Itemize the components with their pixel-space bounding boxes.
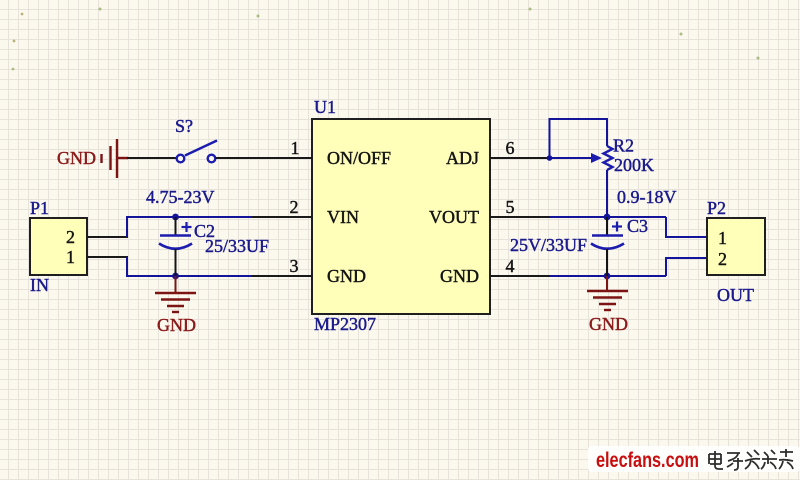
P1 pin 2 stub (87, 236, 128, 238)
svg-text:GND: GND (57, 148, 96, 168)
connector P2 (707, 218, 765, 275)
junction: C2 top (172, 214, 179, 221)
svg-text:C3: C3 (627, 216, 648, 236)
connector P1 (30, 218, 87, 275)
junction: C3 bottom (604, 273, 611, 280)
svg-text:R2: R2 (613, 136, 634, 156)
svg-text:2: 2 (718, 249, 727, 269)
svg-text:200K: 200K (614, 155, 654, 175)
junction: C2 bottom (172, 273, 179, 280)
svg-text:2: 2 (66, 227, 75, 247)
svg-text:1: 1 (291, 138, 300, 158)
IC U1 body (312, 119, 490, 314)
svg-text:P2: P2 (707, 198, 726, 218)
wire: VOUT drop to P2 pin 1 (666, 217, 707, 237)
svg-text:IN: IN (30, 275, 49, 295)
capacitor C2 (159, 217, 192, 276)
svg-text:OUT: OUT (717, 285, 754, 305)
svg-text:GND: GND (157, 315, 196, 335)
capacitor C3 (591, 217, 624, 276)
pin 3 (252, 275, 312, 277)
svg-text:elecfans.com: elecfans.com (596, 449, 699, 472)
wire: loop from junction up over to R2 top (550, 119, 608, 158)
pin 6 (490, 157, 550, 159)
svg-text:GND: GND (589, 314, 628, 334)
svg-text:MP2307: MP2307 (314, 314, 376, 334)
svg-text:S?: S? (175, 116, 193, 136)
watermark band (588, 446, 800, 472)
svg-text:6: 6 (506, 138, 515, 158)
svg-text:5: 5 (506, 197, 515, 217)
svg-text:1: 1 (66, 247, 75, 267)
wire: VOUT rail (550, 216, 666, 218)
wire: GND rail (right) (550, 275, 666, 277)
wire: ADJ to R2 junction (550, 157, 592, 159)
svg-text:VOUT: VOUT (429, 207, 479, 227)
wire: switch to pin 1 (216, 157, 253, 159)
pin 1 (252, 157, 312, 159)
switch S? (177, 141, 217, 163)
power ground bar GND (left) (102, 139, 129, 178)
ground GND (under C3) (587, 276, 628, 310)
svg-text:P1: P1 (30, 198, 49, 218)
svg-text:25V/33UF: 25V/33UF (510, 235, 587, 255)
svg-text:VIN: VIN (327, 207, 359, 227)
wire: R2 bottom to VOUT rail (606, 170, 608, 217)
resistor R2 (adjustable) (591, 146, 613, 170)
svg-text:0.9-18V: 0.9-18V (617, 187, 677, 207)
svg-text:25/33UF: 25/33UF (205, 236, 269, 256)
wire: ground bar to switch (127, 157, 176, 159)
pin 4 (490, 275, 550, 277)
junction: ADJ node (547, 155, 553, 161)
watermark chinese characters (709, 449, 793, 470)
pin 2 (252, 216, 312, 218)
ground GND (under C2) (155, 276, 196, 312)
svg-text:4.75-23V: 4.75-23V (146, 187, 215, 207)
pin 5 (490, 216, 550, 218)
wire: P1 pin2 jog up to VIN rail (127, 217, 252, 237)
svg-text:GND: GND (327, 266, 366, 286)
svg-text:GND: GND (440, 266, 479, 286)
wire: P1 pin1 jog down to GND rail (127, 257, 252, 276)
wire: GND rise to P2 pin 2 (666, 258, 707, 276)
svg-text:ADJ: ADJ (446, 148, 479, 168)
svg-text:3: 3 (290, 256, 299, 276)
svg-text:ON/OFF: ON/OFF (327, 148, 391, 168)
svg-text:1: 1 (718, 228, 727, 248)
P1 pin 1 stub (87, 256, 128, 258)
svg-text:2: 2 (290, 197, 299, 217)
svg-text:U1: U1 (314, 97, 336, 117)
junction: C3 top (604, 214, 611, 221)
svg-text:4: 4 (506, 256, 515, 276)
